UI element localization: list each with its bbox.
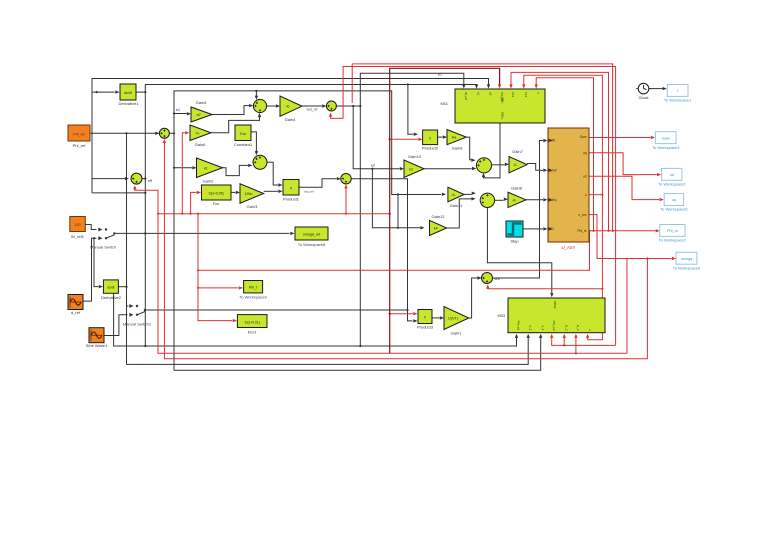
wire: rail 3 to KB3 [174, 337, 541, 370]
wire: sum6 bottom down and over to KB3 top [487, 208, 551, 294]
product Product2 [423, 130, 438, 145]
svg-text:omega: omega [681, 257, 693, 261]
wire: Product2 output to Gain9 [438, 136, 443, 138]
node: Derivative1 output branch [144, 91, 146, 93]
svg-text:KB1i: KB1i [501, 97, 505, 104]
svg-text:k1: k1 [204, 166, 208, 170]
constant Constant1 Dru [235, 125, 251, 141]
red wire: top rail 1 [352, 64, 612, 231]
gain Gain8 [508, 192, 526, 207]
svg-text:Gain11: Gain11 [450, 203, 463, 208]
svg-text:Iout_ref: Iout_ref [307, 108, 318, 112]
svg-text:KB3d: KB3d [553, 301, 557, 309]
svg-text:du/dt: du/dt [107, 286, 114, 290]
wire: Product1 output to sum4 [299, 179, 337, 188]
red wire: sum1 bottom feedback from KB3 row [163, 139, 166, 143]
svg-text:E_2: E_2 [564, 325, 568, 331]
gain Gain4 [280, 96, 302, 116]
node: derivative2 feed [93, 237, 95, 239]
svg-text:u: u [585, 193, 587, 197]
svg-text:Derivative1: Derivative1 [118, 101, 139, 106]
wire: vertical from sum3 node down to KB3 rail 1 [359, 106, 361, 346]
svg-text:Fcn1: Fcn1 [248, 330, 258, 335]
svg-text:Gain6: Gain6 [195, 142, 206, 147]
svg-text:e2: e2 [489, 92, 493, 96]
red wire: KB3 port6 pickup [575, 337, 577, 353]
svg-text:-K-: -K- [195, 131, 201, 135]
manual switch1 [129, 304, 133, 308]
sum2 [253, 99, 266, 112]
svg-text:Phi_ref: Phi_ref [73, 132, 84, 136]
svg-text:U_ASY: U_ASY [562, 245, 576, 250]
sum2b [253, 155, 267, 169]
wire: Gain7 output to U_ASY Uref [527, 164, 543, 171]
gain Gain9 [447, 130, 466, 145]
svg-text:Phi_w2: Phi_w2 [552, 321, 556, 331]
svg-text:k4: k4 [434, 226, 438, 230]
red wire: mid horizontal distribution [158, 213, 390, 215]
svg-text:du/dt: du/dt [124, 91, 132, 95]
product Product1 [283, 180, 299, 196]
subsystem U_ASY [548, 128, 589, 242]
wire: sum6 output to Gain8 [494, 199, 503, 201]
wire: KB1 bottom output down to sum5 bottom [484, 123, 501, 178]
svg-text:Wb: Wb [494, 277, 499, 281]
svg-text:eff: eff [148, 179, 152, 183]
gain Gain5 k2 [191, 107, 212, 122]
to-workspace omega_ref [295, 227, 328, 240]
red wire: KB3 port5 tap [563, 337, 565, 345]
svg-text:F14: F14 [524, 92, 528, 98]
wire: continuation down to KB3 rail 2 [126, 306, 128, 364]
svg-text:To Workspace2: To Workspace2 [658, 182, 686, 187]
red wire: U_ASY uq output [589, 176, 659, 199]
svg-text:tau_ref: tau_ref [304, 190, 314, 194]
svg-text:To Workspace8: To Workspace8 [298, 242, 326, 247]
wire: KB3 rail 2 [127, 337, 529, 364]
svg-text:Phi_t: Phi_t [249, 286, 257, 290]
block Derivative2 du/dt [103, 280, 118, 293]
to-workspace Phi_t [244, 281, 263, 293]
red wire: KB1 port5 rail [511, 72, 609, 230]
to-workspace Phi_rs [660, 225, 685, 237]
red wire: Gain6 input [182, 133, 185, 214]
svg-text:u_rec: u_rec [579, 213, 587, 217]
gain Gain7 [509, 157, 527, 173]
sum6 [480, 193, 494, 207]
to-workspace ud [662, 168, 682, 180]
gain Gain11 [448, 187, 464, 202]
svg-text:Clock: Clock [638, 95, 648, 100]
wire: Fcn output to Gain3 [231, 191, 236, 193]
svg-text:Product2: Product2 [422, 145, 439, 150]
svg-text:omega_ref: omega_ref [303, 233, 320, 237]
svg-text:Step: Step [510, 238, 519, 243]
node: omega branch [144, 232, 146, 234]
svg-text:To Workspace5: To Workspace5 [660, 207, 688, 212]
wire: Gain11 output to sum6 [464, 193, 472, 195]
wire: sum1 output up to Gain5 (e1) [169, 114, 186, 134]
node: Phi_ref branch [125, 132, 127, 134]
wire: sum2b output to Product1 input 1 [267, 162, 278, 185]
red wire: sum_eff bottom feedback [133, 185, 136, 189]
source Phi_ref [68, 125, 90, 141]
svg-text:e1: e1 [438, 72, 442, 76]
svg-text:d_ref: d_ref [71, 310, 81, 315]
wire: KB3 rail 1 [145, 337, 516, 346]
svg-text:Phi_rs: Phi_rs [577, 229, 586, 233]
svg-text:1/Mu: 1/Mu [245, 192, 253, 196]
red arrow into sum3 bottom [329, 113, 332, 117]
node: e2 branch [352, 105, 354, 107]
wire: Manual Switch1 output [145, 309, 408, 311]
wire: sum5 output to Gain7 [492, 164, 505, 166]
svg-text:Gam: Gam [580, 135, 587, 139]
svg-text:-K-: -K- [451, 193, 457, 197]
svg-text:Phi_ref: Phi_ref [73, 143, 87, 148]
svg-text:To Workspace3: To Workspace3 [652, 145, 680, 150]
wire: d_ref up to Manual Switch input 2 [83, 238, 97, 301]
svg-text:Gain8: Gain8 [511, 185, 522, 190]
wire: into Derivative1 [92, 91, 115, 93]
wire: down into Derivative2 [94, 238, 99, 286]
gain Gain1 1/VT [444, 307, 469, 330]
svg-text:Gam: Gam [662, 136, 670, 140]
fcn block 1/(s+0.05) [202, 185, 232, 200]
wire: tee from left rail [91, 179, 93, 193]
manual switch [98, 228, 102, 232]
svg-text:Manual Switch: Manual Switch [90, 245, 116, 250]
sum3 [326, 101, 336, 111]
svg-text:k2: k2 [409, 167, 413, 171]
wire: Gain2 output to sum2b [223, 165, 249, 175]
red wire: Phi_t and Fcn1 feed [198, 214, 233, 321]
red wire: KB1 port7 rail [536, 78, 593, 231]
node: Manual Switch1 feed [406, 309, 408, 311]
svg-text:Fcn: Fcn [213, 201, 220, 206]
wire: KB1 rail down to Product2 input 1 [408, 85, 414, 135]
wire: W_ref1 to Manual Switch input 1 [85, 225, 97, 230]
wire: Sine Wave1 to Manual Switch1 input 2 [104, 315, 128, 336]
wire: Gain6 output up to sum2 bottom [211, 117, 260, 133]
subsystem KB3 [508, 298, 605, 333]
svg-text:To Workspace6: To Workspace6 [673, 265, 701, 270]
svg-text:ud: ud [583, 175, 587, 179]
wire: Manual Switch feed of omega_ref [114, 232, 289, 234]
red wire: U_ASY ud output [589, 153, 657, 175]
source d_ref sine [68, 295, 83, 310]
product Product3 [418, 310, 432, 324]
red wire: U_ASY Phi_rs output [589, 230, 655, 232]
svg-text:k2: k2 [197, 113, 201, 117]
wire: Constant1 output to sum2b top [250, 132, 257, 152]
svg-text:Manual Switch1: Manual Switch1 [123, 321, 152, 326]
source W_ref1 100 [70, 217, 86, 232]
to-workspace t [667, 85, 688, 97]
wire: Gain8 output to U_ASY Ueq [526, 199, 543, 201]
node: e1 branch [173, 112, 175, 114]
clock [638, 83, 649, 94]
wire: e2 to Gain10 [353, 106, 399, 169]
svg-text:X: X [290, 187, 293, 191]
svg-text:To Workspace7: To Workspace7 [659, 238, 687, 243]
gain Gain6 [190, 125, 211, 141]
to-workspace Gam [655, 132, 676, 144]
wire: clock to workspace t [649, 88, 662, 90]
step block [506, 221, 523, 237]
wire: Gain12 output to sum6 [447, 199, 472, 228]
svg-text:Ha: Ha [452, 136, 457, 140]
svg-text:Gain4: Gain4 [285, 117, 296, 122]
svg-text:Product1: Product1 [283, 196, 300, 201]
svg-text:uq: uq [672, 198, 676, 202]
svg-text:uq: uq [583, 151, 587, 155]
wire: sum3 output to KB1 port W_ref [336, 73, 463, 106]
svg-text:-K-: -K- [513, 163, 519, 167]
red wire: sum7 bottom feedback [486, 284, 489, 288]
wire: Derivative2 output joins branch [118, 286, 126, 288]
svg-text:To Workspace9: To Workspace9 [239, 295, 267, 300]
gain Gain12 k4 [430, 220, 447, 235]
sum7 Wb [482, 273, 493, 284]
wire: branch from Gain11 input down to Gain12 rail [397, 194, 399, 227]
node: derivative1 tap [96, 91, 98, 93]
gain Gain3 1/Mu [240, 184, 264, 203]
wire: sum_eff output joins vertical [142, 178, 145, 180]
red wire: KB3 port4 rail [552, 337, 616, 345]
svg-text:1/(s+0.01): 1/(s+0.01) [245, 320, 260, 324]
subsystem KB1 [455, 89, 545, 123]
to-workspace omega [676, 252, 697, 264]
red wire: to Product2 input 2 [390, 138, 418, 140]
wire: Gain1 output up to sum7 [469, 278, 478, 318]
red wire: U_ASY u output stub [589, 194, 602, 196]
svg-text:Dru: Dru [240, 132, 246, 136]
wire: top rail from left column to KB1 port e2 [92, 79, 489, 179]
sum eff [131, 173, 142, 184]
svg-text:Phi_w1: Phi_w1 [517, 321, 521, 331]
wire: branch to Gain2 k1 input [174, 167, 192, 169]
wire: e2 branch down to Gain12 [372, 169, 420, 228]
svg-text:KB1: KB1 [440, 101, 448, 106]
svg-text:Gain1: Gain1 [451, 331, 462, 336]
wire: e1 up over Gain5 to Gain11 input [174, 91, 441, 195]
svg-text:Gain9: Gain9 [452, 146, 463, 151]
svg-text:ud: ud [670, 173, 674, 177]
wire: long vertical sum1 branch down to KB3 bottom rail [173, 133, 175, 370]
svg-text:Constant1: Constant1 [234, 142, 253, 147]
gain Gain10 k2 [404, 160, 424, 178]
wire: Gain5 output into sum2 left [212, 106, 249, 115]
svg-text:e1: e1 [477, 92, 481, 96]
sum4 [341, 174, 351, 184]
svg-text:Sine Wave1: Sine Wave1 [86, 343, 108, 348]
red wire: KB1 port6 rail [524, 75, 603, 340]
wire: Phi_ref output to sum1 [90, 132, 159, 134]
wire: Derivative1 output to KB1 port e1 [136, 85, 477, 93]
svg-text:Gain2: Gain2 [203, 179, 214, 184]
dark red wire: main vertical [390, 68, 500, 353]
svg-text:F12: F12 [511, 92, 515, 98]
wire: Gain9 output to sum5 top [466, 137, 471, 160]
svg-text:W_ref1: W_ref1 [71, 234, 85, 239]
wire: sum4 output down to Product3 input 2 [351, 179, 412, 321]
wire: Phi_ref branch down to Manual Switch1 input 1 [127, 133, 129, 306]
svg-text:1/(s+0.05): 1/(s+0.05) [208, 192, 223, 196]
svg-text:W_ref: W_ref [464, 92, 468, 100]
svg-text:KB1o: KB1o [501, 112, 505, 120]
svg-text:Gain5: Gain5 [196, 100, 207, 105]
red wire: sum4 bottom feedback [344, 184, 347, 188]
svg-text:Derivative2: Derivative2 [101, 295, 122, 300]
wire: Product3 output to Gain1 [432, 317, 440, 319]
svg-text:e2: e2 [371, 163, 375, 167]
sum5 [476, 158, 491, 173]
svg-text:e1: e1 [176, 108, 180, 112]
wire: stub under Derivative2 [114, 293, 146, 346]
wire: sum7 output up to U_ASY Wb [493, 141, 544, 279]
wire: Step output to U_ASY Ct [523, 228, 543, 230]
wire: Gain3 output to Product1 input 2 [264, 190, 278, 192]
red wire: U_ASY Gam output [589, 137, 651, 139]
red wire: to Product3 input 1 [390, 313, 413, 315]
red wire: Fcn input [191, 192, 197, 213]
svg-text:e_4: e_4 [541, 325, 545, 330]
svg-text:E_4: E_4 [576, 325, 580, 331]
svg-text:Gain3: Gain3 [247, 204, 258, 209]
red wire: U_ASY u_rec to omega workspace [589, 215, 672, 259]
wire: sum_eff left input [92, 178, 125, 180]
wire: Gain4 output to sum3 [302, 105, 322, 107]
svg-text:KB3: KB3 [497, 313, 505, 318]
to-workspace uq [664, 194, 683, 206]
gain Gain2 k1 [197, 158, 223, 178]
svg-text:e_1: e_1 [528, 325, 532, 330]
svg-text:100: 100 [75, 223, 81, 227]
svg-text:To Workspace1: To Workspace1 [664, 98, 692, 103]
svg-text:Gain10: Gain10 [408, 154, 422, 159]
wire: Gain10 output to sum5 left [424, 168, 472, 170]
wire: down into sum2 top [255, 91, 257, 96]
block Derivative1 du/dt [120, 84, 136, 100]
svg-text:-K-: -K- [512, 198, 518, 202]
wire: long vertical from Derivative1 branch down to KB3 rail 1 [144, 92, 146, 346]
svg-text:1/(VT): 1/(VT) [448, 317, 458, 321]
svg-text:Gain12: Gain12 [432, 214, 446, 219]
svg-text:-K-: -K- [286, 105, 292, 109]
red wire: Phi_rs branch to Phi_t feed [198, 232, 590, 271]
source Sine Wave1 [89, 328, 104, 343]
sum1 [159, 128, 169, 138]
svg-text:Phi_rs: Phi_rs [667, 229, 678, 233]
svg-text:Gain7: Gain7 [512, 149, 523, 154]
node: sum2 top feed [255, 90, 257, 92]
fcn1 block 1/(s+0.01) [237, 315, 267, 328]
svg-text:Product3: Product3 [417, 325, 434, 330]
wire: sum2 output to Gain4 [267, 105, 276, 107]
